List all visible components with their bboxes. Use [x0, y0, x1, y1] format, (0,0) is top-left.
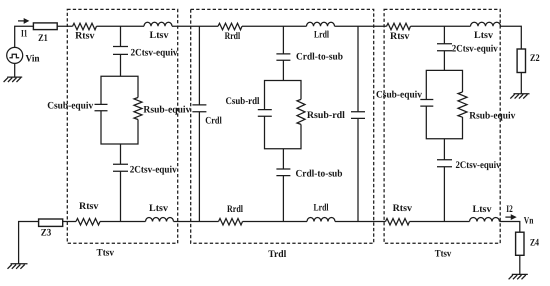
- capacitor Csub-equiv box1: [95, 104, 108, 110]
- impedance Z4: [516, 232, 524, 255]
- source V1 Vin circle: [7, 47, 23, 63]
- wire lower cap to bottom box3: [443, 167, 445, 222]
- wire top main: [15, 26, 522, 49]
- capacitor 2Ctsv-equiv upper box1: [113, 47, 128, 55]
- resistor Rtsv bottom box3: [386, 219, 410, 226]
- svg-text:I1: I1: [21, 28, 28, 39]
- svg-text:2Ctsv-equiv: 2Ctsv-equiv: [456, 160, 501, 171]
- inductor Lrdl top: [307, 22, 335, 26]
- parallel loop box1: [101, 76, 138, 144]
- svg-text:Rtsv: Rtsv: [393, 203, 412, 214]
- svg-text:Z3: Z3: [41, 228, 52, 239]
- svg-text:2Ctsv-equiv: 2Ctsv-equiv: [131, 48, 178, 59]
- svg-text:Z4: Z4: [530, 238, 539, 249]
- svg-text:Z1: Z1: [38, 33, 48, 44]
- svg-text:Vin: Vin: [26, 54, 40, 65]
- inductor Lrdl bottom: [307, 218, 335, 222]
- svg-text:Trdl: Trdl: [268, 249, 286, 260]
- wire vertical right cap branch box2: [357, 26, 359, 221]
- dashed box Ttsv right: [384, 9, 500, 243]
- wire cap to loop box1: [120, 54, 122, 76]
- wire node box1 center top: [120, 26, 122, 46]
- ground below Z4: [509, 274, 528, 279]
- arrow I2: [505, 216, 511, 218]
- wire Z4 to ground: [519, 255, 521, 274]
- svg-text:Csub-rdl: Csub-rdl: [226, 96, 260, 107]
- parallel loop box3: [426, 70, 462, 138]
- svg-text:Ttsv: Ttsv: [97, 248, 115, 259]
- wire cap to loop box3: [443, 51, 445, 71]
- wire lower cap to bottom box1: [120, 171, 122, 221]
- svg-text:Ltsv: Ltsv: [473, 204, 492, 215]
- impedance Z2: [517, 49, 525, 73]
- svg-text:Ltsv: Ltsv: [149, 203, 168, 214]
- ground below Vin: [4, 77, 23, 82]
- svg-text:I2: I2: [506, 204, 513, 215]
- resistor Rsub-equiv box1: [134, 98, 142, 120]
- inductor Ltsv bottom box1: [146, 218, 174, 222]
- resistor Rsub-equiv box3: [458, 92, 467, 117]
- wire vertical Crdl branch: [198, 26, 200, 221]
- svg-text:2Ctsv-equiv: 2Ctsv-equiv: [130, 165, 177, 176]
- wire lower cap to bottom box2: [282, 176, 284, 222]
- resistor Rtsv top box1: [73, 23, 97, 30]
- wire loop to lower cap box1: [120, 144, 122, 164]
- svg-text:Lrdl: Lrdl: [314, 29, 329, 40]
- svg-text:Ttsv: Ttsv: [435, 249, 452, 260]
- svg-text:Z2: Z2: [530, 53, 540, 64]
- svg-text:Ltsv: Ltsv: [150, 30, 169, 41]
- wire cap to loop box2: [282, 60, 284, 80]
- svg-text:Csub-equiv: Csub-equiv: [47, 100, 93, 111]
- resistor Rrdl bottom: [219, 219, 243, 226]
- svg-text:Vn: Vn: [524, 216, 534, 227]
- capacitor 2Ctsv-equiv lower box3: [437, 160, 452, 167]
- svg-text:Crdl: Crdl: [205, 116, 222, 127]
- svg-text:Crdl-to-sub: Crdl-to-sub: [296, 169, 343, 180]
- capacitor Crdl-to-sub lower: [276, 169, 290, 176]
- inductor Ltsv bottom box3: [470, 218, 500, 222]
- svg-text:Crdl-to-sub: Crdl-to-sub: [296, 52, 343, 63]
- wire loop to lower cap box3: [443, 139, 445, 160]
- parallel loop box2: [265, 81, 302, 149]
- inductor Ltsv top box3: [471, 22, 501, 26]
- impedance Z1: [33, 23, 57, 30]
- svg-text:Csub-equiv: Csub-equiv: [376, 90, 422, 101]
- svg-text:Rsub-equiv: Rsub-equiv: [143, 105, 190, 116]
- capacitor Csub-rdl: [258, 110, 272, 117]
- svg-text:Rrdl: Rrdl: [225, 31, 241, 42]
- svg-text:Rsub-equiv: Rsub-equiv: [469, 110, 515, 121]
- svg-text:Rtsv: Rtsv: [390, 31, 409, 42]
- ground below Z3: [8, 264, 28, 269]
- svg-text:Lrdl: Lrdl: [314, 202, 329, 213]
- wire node box2 center top: [282, 26, 284, 54]
- capacitor Crdl: [192, 105, 206, 112]
- resistor Rtsv bottom box1: [76, 219, 100, 226]
- resistor Rtsv top box3: [387, 23, 411, 30]
- wire node box3 center top: [443, 26, 445, 44]
- capacitor Csub-equiv box3: [420, 100, 433, 107]
- wire loop to lower cap box2: [282, 149, 284, 169]
- dashed box Trdl middle: [191, 9, 374, 243]
- svg-text:2Ctsv-equiv: 2Ctsv-equiv: [452, 44, 498, 55]
- capacitor 2Ctsv-equiv lower box1: [113, 164, 128, 171]
- capacitor 2Ctsv-equiv upper box3: [437, 44, 452, 51]
- ground below Z2: [510, 94, 529, 99]
- svg-text:Ltsv: Ltsv: [474, 30, 493, 41]
- svg-text:Rsub-rdl: Rsub-rdl: [307, 110, 345, 121]
- svg-text:Rtsv: Rtsv: [75, 30, 94, 41]
- impedance Z3: [39, 219, 63, 226]
- resistor Rsub-rdl: [297, 99, 305, 124]
- inductor Ltsv top box1: [144, 22, 172, 26]
- arrow I1: [18, 20, 25, 22]
- dashed box Ttsv left: [67, 9, 177, 243]
- pulse waveform symbol: [9, 54, 19, 58]
- svg-text:Rrdl: Rrdl: [227, 204, 243, 215]
- capacitor Crdl-to-sub upper: [276, 54, 290, 60]
- capacitor right branch box2: [351, 112, 365, 119]
- resistor Rrdl top: [218, 23, 242, 30]
- wire Vin to ground: [14, 63, 16, 77]
- wire bottom main: [19, 222, 520, 264]
- svg-text:Rtsv: Rtsv: [79, 201, 98, 212]
- wire Z2 to ground: [520, 73, 522, 94]
